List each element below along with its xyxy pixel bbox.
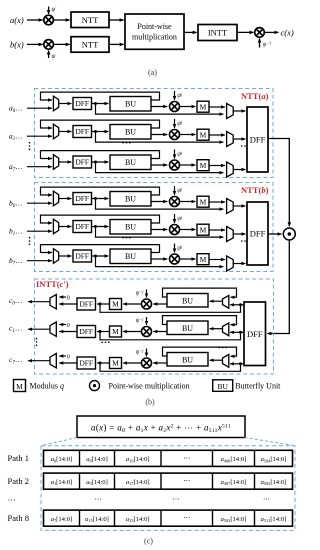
wire NTT(a) DFF to point-wise multiplier — [268, 139, 289, 227]
mux (output select, 0 or data) — [50, 295, 56, 309]
svg-text:Point-wise multiplication: Point-wise multiplication — [109, 382, 190, 391]
svg-text:BU: BU — [217, 382, 228, 391]
wire bypass under BU — [96, 132, 224, 143]
wire M to mux — [209, 106, 225, 108]
output multiplier (post-INTT) — [255, 28, 265, 38]
junction after DFF — [94, 102, 97, 105]
wire BU to multiplier — [153, 362, 167, 364]
modulus block M — [197, 101, 209, 112]
wire M to mux — [209, 165, 225, 167]
butterfly unit BU — [167, 321, 208, 335]
butterfly unit BU — [110, 155, 151, 170]
multiplier (b-row, pre-NTT twiddle) — [44, 40, 54, 50]
wire mux to DFF column — [233, 169, 245, 171]
psi^-j twiddle arrow — [146, 349, 148, 357]
wire bypass under BU — [96, 162, 224, 173]
junction on DFF wire — [239, 331, 242, 334]
wire M to DFF — [97, 362, 109, 364]
svg-text:DFF: DFF — [250, 229, 266, 239]
wire BU feedback loop — [41, 120, 160, 128]
twiddle multiplier — [142, 327, 152, 337]
svg-text:a8[14:0]: a8[14:0] — [86, 456, 108, 463]
twiddle multiplier — [142, 358, 152, 368]
wire multiplier to M — [180, 229, 196, 231]
svg-text:DFF: DFF — [75, 194, 89, 203]
mux (input select) — [53, 124, 58, 139]
svg-text:0: 0 — [67, 296, 70, 302]
shared output DFF column NTT(b) — [247, 202, 268, 265]
wire BU feedback loop — [41, 92, 160, 100]
wire DFF to mux — [59, 331, 77, 333]
svg-text:BU: BU — [125, 223, 136, 232]
svg-text:a7[14:0]: a7[14:0] — [51, 516, 73, 523]
multiplier (a-row, pre-NTT twiddle) — [44, 15, 54, 25]
wire DFF to BU — [92, 226, 109, 228]
wire point-wise multiplier to INTT DFF — [267, 240, 289, 334]
psi^j twiddle arrow — [174, 186, 176, 195]
svg-text:BU: BU — [125, 158, 136, 167]
psi-prime constant arrow (a-row) — [48, 7, 50, 14]
NTT block (a-row) — [71, 12, 109, 28]
wire multiplier to M — [180, 201, 196, 203]
wire bypass under BU — [96, 104, 224, 115]
twiddle multiplier — [170, 225, 180, 235]
wire row input — [27, 202, 52, 204]
modulus block M — [197, 254, 209, 265]
svg-text:M: M — [200, 255, 207, 264]
DFF register — [73, 98, 92, 110]
butterfly unit BU — [110, 125, 151, 140]
DFF register — [73, 250, 92, 262]
butterfly unit BU — [110, 220, 151, 235]
wire multiplier to M — [180, 106, 196, 108]
wire bypass under BU — [96, 227, 224, 238]
svg-text:(c): (c) — [144, 537, 153, 546]
junction after DFF — [94, 130, 97, 133]
svg-text:M: M — [16, 382, 23, 391]
svg-text:a1[14:0]: a1[14:0] — [51, 479, 73, 486]
ellipsis rows NTT(a) — [29, 142, 31, 150]
svg-text:DFF: DFF — [79, 327, 93, 336]
mux (input select) — [53, 191, 58, 206]
shared input DFF column INTT — [244, 302, 266, 366]
psi^-j twiddle arrow — [146, 290, 148, 298]
svg-text:NTT: NTT — [82, 40, 99, 50]
svg-text:DFF: DFF — [75, 252, 89, 261]
junction on M-DFF wire — [99, 330, 102, 333]
modulus block M — [110, 326, 122, 337]
svg-text:INTT: INTT — [208, 28, 228, 38]
wire BU feedback loop — [41, 187, 160, 195]
mux (input select) — [53, 219, 58, 234]
psi-inverse constant arrow — [259, 39, 261, 48]
dashed section box INTT(c) — [35, 279, 274, 374]
wire mux to DFF — [59, 103, 72, 105]
wire bypass under BU — [96, 256, 224, 267]
svg-text:Path 2: Path 2 — [8, 476, 30, 486]
legend BU box — [213, 380, 233, 392]
svg-text:DFF: DFF — [75, 99, 89, 108]
modulus block M — [197, 196, 209, 207]
butterfly unit BU — [110, 249, 151, 264]
mux (output select, 0 or data) — [50, 322, 56, 336]
wire mux to DFF column — [233, 233, 245, 235]
svg-text:Path 8: Path 8 — [8, 513, 30, 523]
DFF register — [73, 221, 92, 233]
mux (output select) — [227, 162, 234, 177]
legend point-wise symbol — [90, 381, 100, 391]
junction after DFF — [94, 197, 97, 200]
svg-text:DFF: DFF — [247, 329, 263, 339]
psi^j twiddle arrow — [174, 91, 176, 100]
wire multiplier to M — [123, 362, 141, 364]
dashed section box NTT(a) — [35, 89, 274, 178]
coefficient boxes Path 2 — [44, 473, 293, 489]
mux (input select) — [53, 96, 58, 111]
wire row input — [27, 135, 52, 137]
wire a(x) to multiplier — [27, 19, 43, 21]
wire point-wise mult to INTT — [184, 31, 197, 33]
junction on M-DFF wire — [99, 362, 102, 365]
constant 0 input — [59, 296, 66, 298]
wire multiplier to NTT (a-row) — [53, 19, 69, 21]
svg-text:DFF: DFF — [79, 359, 93, 368]
svg-text:Point-wise: Point-wise — [137, 22, 172, 31]
DFF register — [73, 193, 92, 205]
legend M box — [14, 380, 26, 392]
wire bypass under row — [100, 304, 241, 312]
wire BU to multiplier — [151, 229, 167, 231]
twiddle multiplier — [170, 160, 180, 170]
svg-text:M: M — [200, 161, 207, 170]
svg-text:BU: BU — [125, 252, 136, 261]
mux (output select) — [227, 132, 234, 147]
twiddle multiplier — [142, 299, 152, 309]
svg-text:Butterfly Unit: Butterfly Unit — [235, 382, 281, 391]
mux (input select) — [223, 354, 229, 367]
psi^-j twiddle arrow — [146, 317, 148, 325]
junction after DFF — [94, 255, 97, 258]
svg-text:⋯: ⋯ — [95, 496, 102, 504]
constant 0 input — [59, 355, 66, 357]
wire BU to multiplier — [153, 303, 167, 305]
butterfly unit BU — [167, 294, 208, 308]
wire M to DFF — [97, 331, 109, 333]
junction after DFF — [94, 161, 97, 164]
INTT block — [198, 25, 237, 41]
svg-text:Path 1: Path 1 — [8, 453, 30, 463]
wire DFF column to mux — [230, 363, 244, 365]
wire mux to BU — [210, 359, 223, 361]
svg-text:⋯: ⋯ — [173, 496, 180, 504]
twiddle multiplier — [170, 254, 180, 264]
butterfly unit BU — [167, 353, 208, 367]
svg-text:b(x): b(x) — [10, 39, 24, 49]
wire DFF to BU — [92, 103, 109, 105]
butterfly unit BU — [110, 97, 151, 112]
svg-text:NTT(b): NTT(b) — [241, 185, 269, 195]
wire NTT to point-wise mult (b-row) — [109, 43, 124, 45]
coefficient boxes Path 1 — [44, 450, 293, 466]
dashed section box NTT(b) — [35, 183, 274, 272]
wire BU feedback loop — [163, 288, 237, 297]
svg-text:M: M — [200, 102, 207, 111]
wire multiplier to M — [180, 258, 196, 260]
wire multiplier to NTT (b-row) — [53, 43, 69, 45]
svg-text:BU: BU — [125, 128, 136, 137]
modulus block M — [197, 129, 209, 140]
wire INTT to output multiplier — [237, 31, 254, 33]
svg-text:M: M — [112, 359, 119, 368]
svg-text:BU: BU — [182, 324, 193, 333]
wire mux to BU — [210, 328, 223, 330]
polynomial equation box — [77, 416, 245, 438]
wire mux to DFF column — [233, 205, 245, 207]
wire mux to DFF column — [233, 263, 245, 265]
svg-text:⋯: ⋯ — [183, 514, 190, 522]
wire row input — [27, 230, 52, 232]
wire row input — [27, 166, 52, 168]
ellipsis rows NTT(b) — [29, 237, 31, 245]
twiddle multiplier — [170, 130, 180, 140]
DFF register — [77, 326, 96, 338]
wire BU to multiplier — [151, 201, 167, 203]
modulus block M — [110, 299, 122, 310]
svg-text:INTT(c′): INTT(c′) — [36, 279, 69, 289]
svg-text:DFF: DFF — [75, 222, 89, 231]
svg-text:DFF: DFF — [79, 300, 93, 309]
svg-text:c(x): c(x) — [281, 27, 294, 37]
wire row input — [27, 107, 52, 109]
wire mux to DFF — [59, 226, 72, 228]
svg-text:⋯: ⋯ — [8, 496, 16, 505]
svg-text:BU: BU — [125, 195, 136, 204]
wire b(x) to multiplier — [27, 43, 43, 45]
DFF register — [77, 357, 96, 369]
wire M to mux — [209, 259, 225, 261]
svg-text:⋯: ⋯ — [263, 496, 270, 504]
wire multiplier to M — [180, 164, 196, 166]
svg-text:NTT(a): NTT(a) — [241, 91, 269, 101]
wire BU to multiplier — [153, 331, 167, 333]
mux (output select) — [227, 227, 234, 242]
svg-text:multiplication: multiplication — [132, 32, 177, 41]
mux (output select) — [227, 256, 234, 271]
wire BU feedback loop — [41, 245, 160, 253]
wire mux to DFF — [59, 131, 72, 133]
wire DFF to BU — [92, 131, 109, 133]
psi^j twiddle arrow — [174, 150, 176, 159]
DFF register — [77, 298, 96, 310]
svg-text:BU: BU — [125, 100, 136, 109]
dashed box part c — [41, 446, 295, 531]
point-wise multiplier node — [283, 228, 295, 240]
ellipsis rows INTT — [36, 338, 38, 346]
wire mux to DFF — [59, 198, 72, 200]
mux (output select, 0 or data) — [50, 354, 56, 368]
mux (output select) — [227, 104, 234, 119]
twiddle multiplier — [170, 102, 180, 112]
svg-text:⋯: ⋯ — [183, 477, 190, 485]
svg-text:Modulus q: Modulus q — [30, 382, 64, 391]
wire BU feedback loop — [41, 215, 160, 223]
psi^j twiddle arrow — [174, 244, 176, 253]
butterfly unit BU — [110, 192, 151, 207]
coefficient boxes Path 8 — [44, 510, 293, 526]
junction on DFF wire — [239, 303, 242, 306]
svg-text:BU: BU — [182, 296, 193, 305]
wire row input — [27, 260, 52, 262]
psi^j twiddle arrow — [174, 119, 176, 128]
modulus block M — [197, 160, 209, 171]
wire M to mux — [209, 229, 225, 231]
wire multiplier to M — [180, 134, 196, 136]
wire multiplier to c(x) — [265, 31, 279, 33]
svg-text:a9[14:0]: a9[14:0] — [86, 479, 108, 486]
junction on M-DFF wire — [99, 303, 102, 306]
wire M to mux — [209, 201, 225, 203]
mux (input select) — [53, 155, 58, 170]
wire row output — [28, 328, 50, 330]
svg-text:DFF: DFF — [75, 158, 89, 167]
svg-text:(a): (a) — [148, 68, 157, 77]
svg-text:NTT: NTT — [82, 15, 99, 25]
wire DFF to BU — [92, 255, 109, 257]
wire mux to DFF — [59, 255, 72, 257]
wire NTT to point-wise mult (a-row) — [109, 19, 124, 21]
wire M to DFF — [97, 303, 109, 305]
wire BU to multiplier — [151, 258, 167, 260]
DFF register — [73, 156, 92, 168]
wire DFF column to mux — [230, 304, 244, 306]
svg-text:BU: BU — [182, 355, 193, 364]
psi-prime constant arrow (b-row) — [48, 51, 50, 59]
wire mux to DFF column — [233, 138, 245, 140]
wire bypass under BU — [96, 199, 224, 210]
wire M to mux — [209, 134, 225, 136]
svg-text:M: M — [200, 225, 207, 234]
wire mux to DFF — [59, 161, 72, 163]
wire row output — [28, 301, 50, 303]
wire DFF to BU — [92, 161, 109, 163]
svg-text:DFF: DFF — [250, 134, 266, 144]
Point-wise multiplication block — [125, 14, 184, 49]
constant 0 input — [59, 324, 66, 326]
DFF register — [73, 126, 92, 138]
mux (input select) — [223, 295, 229, 308]
wire DFF to mux — [59, 362, 77, 364]
shared output DFF column NTT(a) — [247, 107, 268, 172]
svg-text:M: M — [112, 327, 119, 336]
mux (output select) — [227, 199, 234, 214]
wire bypass under row — [100, 332, 241, 340]
svg-text:⋯: ⋯ — [183, 454, 190, 462]
wire BU to multiplier — [151, 134, 167, 136]
wire BU feedback loop — [163, 316, 237, 325]
svg-text:0: 0 — [67, 355, 70, 361]
svg-text:(b): (b) — [145, 398, 155, 407]
wire BU to multiplier — [151, 164, 167, 166]
NTT block (b-row) — [71, 37, 109, 53]
wire DFF to mux — [59, 303, 77, 305]
dashed callout left — [41, 438, 77, 446]
wire BU feedback loop — [41, 151, 160, 159]
wire row output — [28, 360, 50, 362]
wire bypass under row — [100, 363, 241, 371]
mux (input select) — [53, 249, 58, 264]
psi^j twiddle arrow — [174, 214, 176, 223]
wire multiplier to M — [123, 331, 141, 333]
svg-text:a0[14:0]: a0[14:0] — [51, 456, 73, 463]
svg-text:0: 0 — [67, 323, 70, 329]
wire DFF to BU — [92, 198, 109, 200]
wire mux to BU — [210, 300, 223, 302]
wire BU to multiplier — [151, 106, 167, 108]
svg-text:M: M — [200, 197, 207, 206]
svg-text:DFF: DFF — [75, 127, 89, 136]
twiddle multiplier — [170, 197, 180, 207]
wire BU feedback loop — [163, 347, 237, 356]
svg-text:a(x): a(x) — [10, 15, 24, 25]
mux (input select) — [223, 323, 229, 336]
svg-text:M: M — [112, 300, 119, 309]
modulus block M — [197, 224, 209, 235]
wire multiplier to M — [123, 303, 141, 305]
wire NTT(b) DFF to point-wise multiplier — [268, 233, 281, 235]
wire DFF column to mux — [230, 331, 244, 333]
wire mux to DFF column — [233, 110, 245, 112]
modulus block M — [110, 358, 122, 369]
dashed callout right — [245, 438, 296, 446]
svg-text:M: M — [200, 130, 207, 139]
junction after DFF — [94, 225, 97, 228]
junction on DFF wire — [239, 362, 242, 365]
